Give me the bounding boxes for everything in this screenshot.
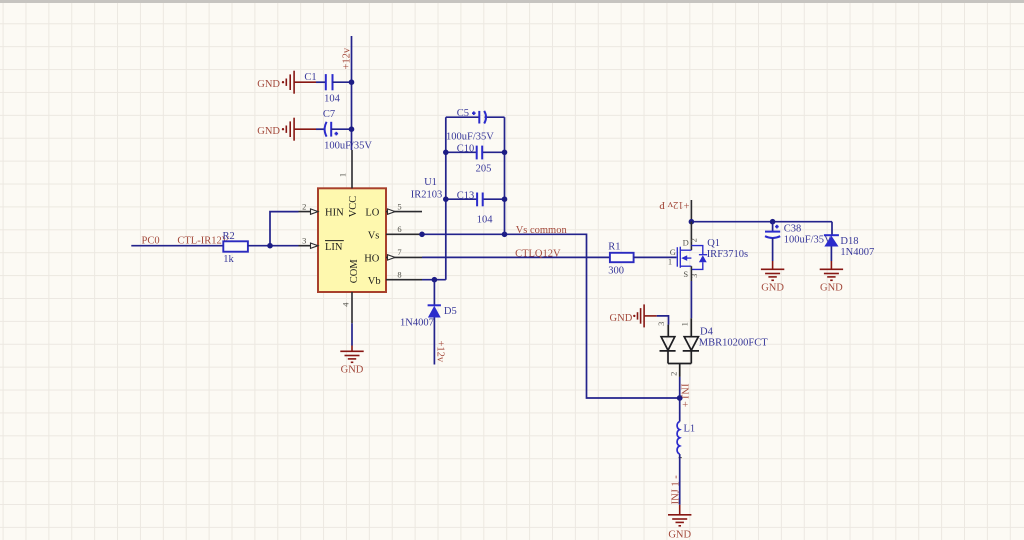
svg-text:D4: D4 — [700, 326, 714, 337]
wire — [316, 81, 326, 83]
svg-text:GND: GND — [610, 313, 633, 324]
capacitor C38 (polarized) — [765, 222, 832, 261]
wire — [248, 245, 299, 247]
wire CTLQ12V net — [422, 256, 610, 258]
svg-text:+12v P: +12v P — [659, 199, 689, 210]
svg-text:C1: C1 — [304, 72, 316, 83]
svg-text:VCC: VCC — [348, 196, 359, 218]
svg-text:GND: GND — [761, 283, 784, 294]
power port +12v (top rail) — [342, 36, 353, 150]
svg-text:6: 6 — [397, 224, 401, 234]
svg-text:D5: D5 — [444, 306, 457, 317]
wire L1 to GND — [679, 454, 681, 505]
junction — [419, 232, 425, 238]
capacitor C7 (polarized) — [323, 109, 372, 151]
svg-text:GND: GND — [257, 126, 280, 137]
svg-text:C38: C38 — [784, 223, 802, 234]
svg-text:3: 3 — [302, 235, 306, 245]
wire R1 to gate — [634, 256, 677, 258]
svg-text:INJ 1 -: INJ 1 - — [671, 475, 682, 505]
wire Vb net — [422, 279, 446, 281]
ground GND (earth, bottom) — [668, 505, 691, 540]
svg-text:Vs common: Vs common — [516, 225, 568, 236]
junction — [443, 150, 449, 156]
wire +12v P net — [691, 221, 832, 223]
pin 8 Vb — [368, 269, 422, 287]
wire — [333, 81, 352, 83]
svg-text:Q1: Q1 — [707, 238, 720, 249]
capacitor C1 — [304, 72, 340, 105]
svg-text:LO: LO — [365, 208, 379, 219]
svg-text:MBR10200FCT: MBR10200FCT — [699, 337, 768, 348]
svg-text:C7: C7 — [323, 109, 335, 120]
svg-text:205: 205 — [476, 164, 492, 175]
ground GND (earth, COM pin) — [340, 323, 363, 375]
svg-text:GND: GND — [668, 530, 691, 540]
svg-text:300: 300 — [608, 265, 624, 276]
ground GND (power bar, C7) — [257, 118, 316, 141]
svg-text:1N4007: 1N4007 — [400, 318, 434, 329]
junction — [502, 150, 508, 156]
junction — [443, 196, 449, 202]
wire Q1 source down — [690, 266, 692, 318]
pin L1 lower pin mark — [679, 457, 682, 459]
wire left rail — [445, 117, 447, 280]
svg-text:5: 5 — [397, 201, 401, 211]
svg-text:1: 1 — [679, 322, 689, 326]
svg-text:D: D — [683, 238, 689, 248]
resistor R1 — [608, 242, 633, 277]
svg-text:8: 8 — [397, 269, 401, 279]
svg-text:GND: GND — [257, 79, 280, 90]
inductor L1 — [677, 422, 695, 455]
svg-text:HO: HO — [364, 254, 380, 265]
svg-text:100uF/35V: 100uF/35V — [446, 131, 494, 142]
svg-text:LIN: LIN — [325, 242, 343, 253]
pin 1 VCC — [338, 150, 360, 217]
junction — [677, 395, 683, 401]
transistor Q1 IRF3710s — [668, 222, 748, 280]
svg-text:COM: COM — [349, 259, 360, 284]
svg-text:Vb: Vb — [368, 276, 381, 287]
svg-text:+12v: +12v — [435, 341, 446, 363]
svg-text:HIN: HIN — [325, 208, 344, 219]
wire INJ node — [679, 377, 681, 422]
diode D18 1N4007 — [824, 222, 874, 261]
junction — [349, 79, 355, 85]
svg-text:100uF/35V: 100uF/35V — [324, 141, 372, 152]
svg-text:1N4007: 1N4007 — [840, 247, 874, 258]
svg-text:1: 1 — [338, 173, 348, 177]
junction — [349, 126, 355, 132]
pin 3 LIN — [299, 235, 344, 252]
wire — [316, 128, 325, 130]
wire right rail — [504, 117, 506, 234]
wire Vs common net — [422, 234, 680, 398]
wire HIN jog — [270, 212, 299, 246]
svg-text:S: S — [683, 269, 688, 279]
junction — [267, 243, 273, 249]
svg-text:7: 7 — [397, 247, 401, 257]
wire — [331, 128, 351, 130]
pin 6 Vs — [368, 224, 422, 242]
capacitor C10 — [446, 144, 505, 175]
IC U1 IR2103 gate driver — [318, 177, 442, 292]
svg-text:+12v: +12v — [342, 47, 353, 69]
pin 5 LO — [365, 201, 422, 218]
ground GND (power bar, D4 pin3) — [610, 304, 657, 327]
svg-text:GND: GND — [341, 365, 364, 376]
wire PC0 net — [131, 245, 223, 247]
svg-text:U1: U1 — [424, 177, 437, 188]
ground GND (power bar, C1) — [257, 71, 316, 94]
pin 4 COM — [340, 259, 360, 324]
junction — [432, 277, 438, 283]
svg-text:1: 1 — [668, 256, 672, 266]
svg-text:IR2103: IR2103 — [411, 190, 443, 201]
svg-text:D18: D18 — [840, 236, 858, 247]
svg-text:C10: C10 — [457, 144, 475, 155]
svg-text:104: 104 — [477, 214, 494, 225]
svg-text:2: 2 — [688, 238, 698, 242]
diode D5 1N4007 — [400, 280, 457, 365]
svg-text:1k: 1k — [223, 254, 234, 265]
junction — [502, 196, 508, 202]
pin 7 HO — [364, 247, 422, 265]
svg-text:PC0: PC0 — [142, 236, 160, 247]
wire GND to D4 pin3 — [657, 316, 669, 325]
svg-text:104: 104 — [324, 94, 341, 105]
svg-text:L1: L1 — [684, 423, 696, 434]
svg-text:C5: C5 — [457, 108, 469, 119]
svg-text:INJ +: INJ + — [679, 384, 690, 408]
svg-text:4: 4 — [340, 302, 350, 307]
resistor R2 — [223, 231, 248, 265]
svg-text:IRF3710s: IRF3710s — [707, 249, 748, 260]
svg-text:GND: GND — [820, 283, 843, 294]
junction — [689, 219, 695, 225]
ground GND (earth, D18) — [820, 261, 843, 294]
junction — [502, 232, 508, 238]
svg-text:C13: C13 — [457, 190, 475, 201]
svg-text:2: 2 — [668, 372, 678, 376]
power port +12v P (rotated 180) — [659, 199, 691, 222]
svg-text:Vs: Vs — [368, 231, 380, 242]
junction — [770, 219, 776, 225]
svg-text:CTLQ12V: CTLQ12V — [515, 248, 561, 259]
svg-text:3: 3 — [656, 322, 666, 326]
pin 2 HIN — [299, 201, 345, 218]
svg-text:3: 3 — [689, 274, 699, 278]
svg-text:2: 2 — [302, 201, 306, 211]
svg-text:100uF/35V: 100uF/35V — [784, 235, 832, 246]
svg-text:R1: R1 — [608, 242, 620, 253]
ground GND (earth, C38) — [761, 261, 784, 294]
diode D4 MBR10200FCT — [656, 318, 768, 377]
capacitor C13 — [446, 190, 505, 225]
svg-text:R2: R2 — [223, 231, 235, 242]
capacitor C5 (polarized) — [446, 108, 505, 142]
